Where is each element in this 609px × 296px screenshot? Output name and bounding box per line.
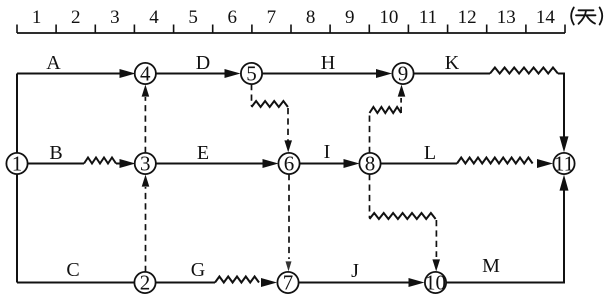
activity I arrow (6 to 8) — [300, 163, 355, 165]
dummy arrow 6 to 7 (dashed) — [288, 174, 290, 259]
dummy 5 to 6: dashed drop, wavy free float, dashed arrow into node 6 — [251, 84, 253, 106]
svg-text:C: C — [66, 259, 79, 281]
activity G arrow with free-float wavy line (2 to 7) — [156, 282, 215, 284]
svg-text:M: M — [482, 255, 500, 277]
svg-text:1: 1 — [32, 7, 42, 28]
node 2 — [134, 271, 155, 295]
activity M arrow (10 to 11) — [446, 190, 564, 283]
svg-text:J: J — [351, 260, 359, 282]
svg-text:13: 13 — [497, 7, 516, 28]
node 4 — [135, 62, 156, 86]
svg-text:5: 5 — [246, 62, 257, 86]
svg-text:3: 3 — [110, 7, 120, 28]
svg-text:10: 10 — [425, 271, 446, 295]
svg-text:7: 7 — [267, 7, 277, 28]
activity C line (1 to 2) — [17, 282, 134, 284]
svg-text:11: 11 — [419, 7, 437, 28]
svg-text:7: 7 — [283, 271, 294, 295]
svg-text:1: 1 — [12, 152, 23, 176]
wire left vertical spine from node 1 — [16, 74, 18, 283]
svg-text:E: E — [197, 142, 209, 164]
activity L arrow with free-float wavy line (8 to 11) — [381, 163, 457, 165]
svg-text:12: 12 — [458, 7, 477, 28]
svg-text:8: 8 — [306, 7, 316, 28]
timeline day numbers 1-14 — [32, 7, 556, 28]
svg-text:6: 6 — [284, 152, 295, 176]
svg-text:9: 9 — [345, 7, 355, 28]
node 5 — [241, 62, 262, 86]
svg-text:I: I — [324, 141, 331, 163]
dummy arrow 2 to 3 (dashed) — [145, 187, 147, 272]
svg-text:K: K — [445, 52, 460, 74]
dummy arrow 3 to 4 (dashed) — [144, 97, 146, 153]
activity E arrow (3 to 6) — [156, 163, 274, 165]
svg-text:11: 11 — [554, 152, 574, 176]
activity J arrow (7 to 10) — [299, 282, 420, 284]
node 3 — [135, 152, 156, 176]
activity A arrow (1 to 4) — [17, 73, 131, 75]
dummy 8 to 10: dashed drop, wavy free float, dashed arrow into node 10 — [369, 174, 371, 218]
svg-text:9: 9 — [398, 62, 409, 86]
svg-text:2: 2 — [140, 271, 151, 295]
node 8 — [359, 152, 380, 176]
activity H arrow (5 to 9) — [262, 73, 387, 75]
node 1 — [6, 152, 27, 176]
svg-text:A: A — [46, 52, 61, 74]
svg-text:14: 14 — [536, 7, 556, 28]
svg-text:6: 6 — [228, 7, 238, 28]
node 11 — [553, 152, 574, 176]
svg-text:4: 4 — [140, 62, 151, 86]
svg-text:5: 5 — [188, 7, 198, 28]
dummy 8 to 9: dashed rise, wavy free float, arrow into node 9 — [369, 114, 371, 153]
svg-text:L: L — [424, 142, 436, 164]
activity K arrow with free-float wavy line (9 to 11) — [414, 73, 490, 75]
activity B arrow with free-float wavy line (1 to 3) — [28, 163, 84, 165]
node 9 — [392, 62, 413, 86]
svg-text:8: 8 — [365, 152, 376, 176]
svg-text:10: 10 — [379, 7, 398, 28]
node 10 — [425, 271, 446, 295]
svg-text:2: 2 — [71, 7, 81, 28]
svg-text:4: 4 — [149, 7, 159, 28]
activity D arrow (4 to 5) — [156, 73, 236, 75]
svg-text:D: D — [196, 52, 210, 74]
timeline ruler tick marks — [17, 25, 565, 34]
svg-text:3: 3 — [140, 152, 151, 176]
svg-text:G: G — [191, 259, 205, 281]
node 7 — [277, 271, 298, 295]
svg-text:H: H — [321, 52, 335, 74]
unit label (tian = days) — [571, 8, 602, 25]
timeline ruler baseline — [17, 32, 565, 34]
svg-text:B: B — [49, 142, 62, 164]
node 6 — [278, 152, 299, 176]
